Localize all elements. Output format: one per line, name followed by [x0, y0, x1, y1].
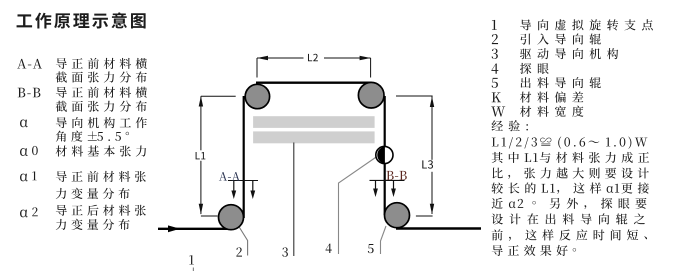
parts list [492, 20, 497, 30]
section B-B tick line [370, 179, 405, 181]
legend alpha [20, 119, 28, 127]
section A-A tick line [228, 180, 258, 182]
web top horizontal [256, 81, 371, 83]
dimension L3 bottom arrow [430, 204, 434, 215]
white patch under L1 label [193, 150, 208, 161]
callout number 1 [189, 255, 194, 264]
section label A-A [219, 172, 227, 181]
callout number 5 [368, 244, 374, 253]
dimension L3 top extension [396, 95, 433, 97]
title 工作原理示意图 [17, 14, 33, 27]
white patch under L3 label [420, 160, 438, 172]
dim label L1 [196, 152, 200, 159]
roller top-left [245, 84, 269, 108]
section label B-B [386, 171, 393, 180]
leader line to 5 [381, 226, 387, 254]
sensor eye 4: filled half [377, 147, 385, 164]
dimension L2 right arrow [360, 56, 371, 60]
dimension L1 line [200, 96, 202, 214]
leader tick below 1 [192, 268, 194, 271]
roller top-right [358, 82, 384, 108]
dimension L2 right extension [370, 58, 372, 78]
leader line to 4 [339, 158, 376, 255]
dimension L1 top arrow [199, 96, 203, 107]
gray bar upper (guide frame) [253, 116, 375, 128]
white patch under L2 label [304, 51, 325, 64]
web entry line [158, 228, 231, 230]
dimension L1 top extension [201, 95, 236, 97]
web right vertical [384, 96, 386, 215]
dimension L3 bottom extension [416, 215, 433, 217]
dimension L1 bottom extension [201, 215, 218, 217]
legend B-B [18, 88, 26, 98]
legend alpha1 [20, 174, 28, 182]
section B-B arrow 1 [375, 180, 377, 189]
dim label L2 [308, 54, 312, 61]
web entry arrow [168, 225, 180, 232]
dimension L2 line [257, 57, 371, 59]
legend alpha0 [20, 148, 28, 156]
dimension L3 line [431, 97, 433, 215]
dimension L1 bottom arrow [199, 204, 203, 215]
web left vertical [243, 96, 245, 218]
gray bar lower (guide frame) [253, 131, 375, 143]
dimension L2 left arrow [257, 56, 268, 60]
section B-B arrow 2 [393, 180, 395, 189]
callout number 2 [236, 247, 242, 256]
leader line to 2 [237, 224, 248, 256]
callout number 3 [282, 247, 288, 256]
roller 2: entry guide roller (bottom-left) [219, 205, 244, 230]
dimension L3 top arrow [430, 97, 434, 108]
experience paragraph [492, 120, 503, 130]
section A-A arrow 2 [252, 181, 254, 192]
callout number 4 [326, 244, 332, 253]
legend A-A [17, 59, 26, 69]
section A-A arrow 1 [233, 181, 235, 192]
roller 5: exit guide roller (bottom-right) [385, 203, 410, 228]
leader line to 3 [293, 143, 295, 257]
dim label L3 [422, 160, 427, 168]
legend alpha2 [20, 210, 28, 218]
sensor eye 4: outline circle [376, 146, 393, 163]
web exit line [396, 227, 481, 229]
dimension L2 left extension [256, 58, 258, 78]
